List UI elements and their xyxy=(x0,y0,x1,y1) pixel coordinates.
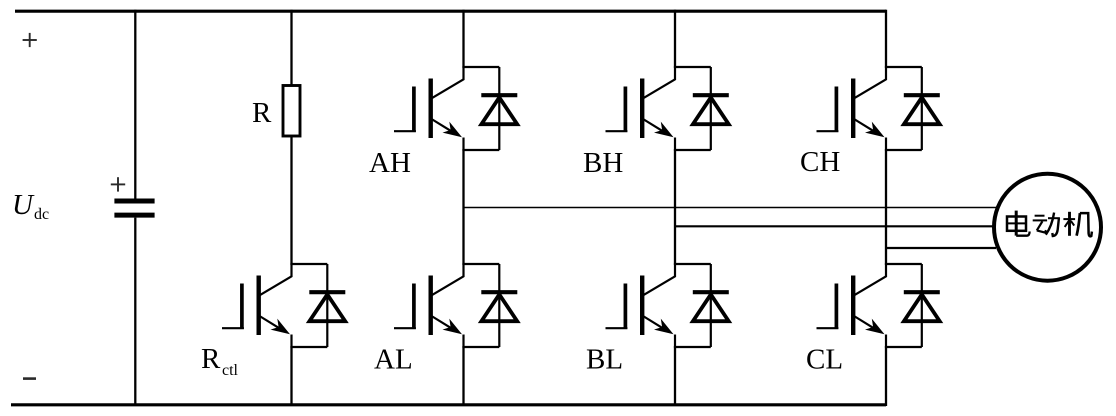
resistor R wire top xyxy=(290,10,292,86)
svg-text:BH: BH xyxy=(583,147,623,179)
char 动 xyxy=(1033,213,1060,236)
svg-text:BL: BL xyxy=(586,344,623,376)
capacitor C1 plus label xyxy=(111,177,125,191)
svg-text:AH: AH xyxy=(369,147,411,179)
resistor R body xyxy=(283,86,300,137)
wire B midpoint xyxy=(674,149,676,265)
phase leg B upper wire xyxy=(674,10,676,68)
svg-text:CL: CL xyxy=(806,344,843,376)
top DC bus rail xyxy=(15,10,886,13)
phase leg C upper wire xyxy=(885,10,887,68)
minus terminal label xyxy=(23,377,36,380)
svg-text:R: R xyxy=(252,97,272,129)
IGBT AH with freewheel diode xyxy=(394,66,517,151)
IGBT R_ctl with freewheel diode xyxy=(222,263,345,348)
IGBT AL with freewheel diode xyxy=(394,263,517,348)
svg-text:ctl: ctl xyxy=(222,362,239,379)
IGBT BL with freewheel diode xyxy=(606,263,729,348)
IGBT CH with freewheel diode xyxy=(817,66,940,151)
capacitor C1 plates xyxy=(114,199,154,204)
wire B leg to bottom rail xyxy=(674,346,676,406)
capacitor C1 wire top xyxy=(134,10,136,199)
phase leg A upper wire xyxy=(462,10,464,68)
motor label 电动机 (hand-drawn glyphs) xyxy=(1007,211,1092,237)
bottom DC bus rail xyxy=(11,403,886,406)
char 电 xyxy=(1007,211,1030,236)
char 机 xyxy=(1063,212,1092,237)
plus terminal label xyxy=(23,33,37,47)
wire C midpoint xyxy=(885,149,887,265)
wire C leg to bottom rail xyxy=(885,346,887,406)
svg-text:dc: dc xyxy=(34,206,49,223)
svg-text:U: U xyxy=(12,189,35,221)
IGBT BH with freewheel diode xyxy=(606,66,729,151)
phase A line to motor xyxy=(464,207,997,209)
wire R_ctl emitter to bottom rail xyxy=(290,346,292,406)
capacitor C1 wire bottom xyxy=(134,218,136,406)
svg-text:AL: AL xyxy=(374,344,413,376)
wire resistor to R_ctl xyxy=(290,136,292,265)
svg-text:CH: CH xyxy=(800,146,840,178)
wire A leg to bottom rail xyxy=(462,346,464,406)
svg-text:R: R xyxy=(201,343,221,375)
phase B line to motor xyxy=(675,225,994,227)
IGBT CL with freewheel diode xyxy=(817,263,940,348)
phase C line to motor xyxy=(886,247,996,249)
wire A midpoint xyxy=(462,149,464,265)
motor M circle xyxy=(994,174,1101,281)
